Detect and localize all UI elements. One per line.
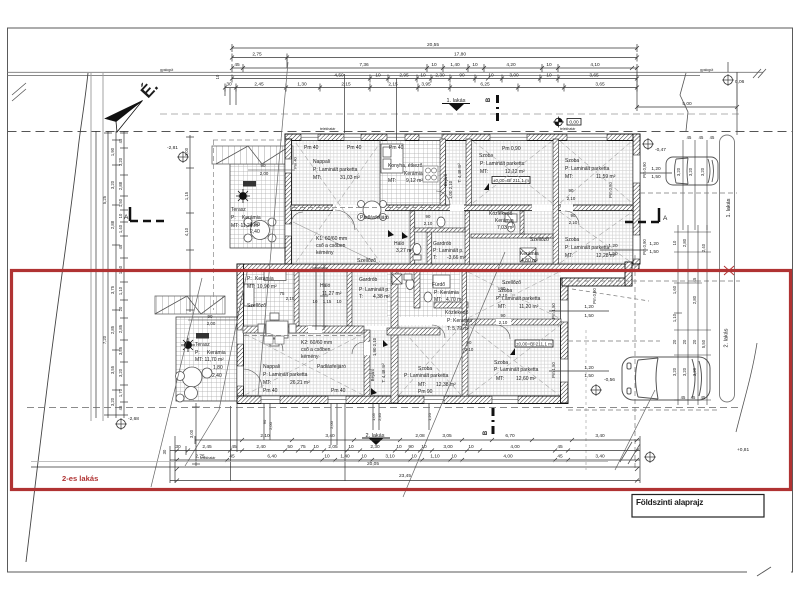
- svg-text:2-es lakás: 2-es lakás: [62, 474, 98, 483]
- svg-text:10: 10: [431, 62, 437, 68]
- svg-text:Szoba: Szoba: [565, 237, 579, 243]
- leader ticks below row 5: [225, 57, 345, 133]
- svg-text:10: 10: [313, 299, 318, 304]
- room fill nappali: [291, 139, 440, 265]
- svg-text:1,80: 1,80: [213, 365, 223, 371]
- svg-text:3,20: 3,20: [700, 167, 705, 176]
- svg-text:1,60: 1,60: [672, 285, 677, 294]
- interior vertical wall kitchen/bejaro: [440, 139, 446, 205]
- svg-text:10: 10: [348, 444, 354, 450]
- svg-text:4,00: 4,00: [510, 444, 520, 450]
- svg-text:3,27 m²: 3,27 m²: [396, 248, 413, 254]
- svg-text:45: 45: [231, 444, 237, 450]
- svg-text:T:: T:: [359, 294, 363, 300]
- svg-text:6,25: 6,25: [480, 82, 490, 88]
- svg-text:2,40: 2,40: [256, 444, 266, 450]
- svg-text:telekhatár: telekhatár: [320, 127, 336, 131]
- svg-text:2,40: 2,40: [701, 243, 706, 252]
- svg-text:Pm 0,90: Pm 0,90: [592, 288, 597, 304]
- svg-text:-2,81: -2,81: [167, 145, 178, 151]
- svg-text:7,20: 7,20: [102, 335, 107, 344]
- svg-text:10: 10: [375, 73, 381, 79]
- svg-text:2,95: 2,95: [399, 73, 409, 79]
- svg-text:2,40: 2,40: [377, 412, 382, 421]
- interior partitions bath block: [410, 211, 553, 264]
- svg-text:2,30: 2,30: [370, 444, 380, 450]
- svg-text:Pm 0,90: Pm 0,90: [608, 182, 613, 198]
- svg-text:45: 45: [692, 277, 697, 282]
- svg-text:P:: P:: [231, 215, 236, 221]
- bottom unit left wall: [237, 264, 244, 403]
- svg-text:10: 10: [472, 62, 478, 68]
- top dimension row 5: [223, 84, 639, 92]
- top dimension row 2: 2,75 / 17,80: [230, 54, 639, 62]
- svg-text:Szoba: Szoba: [418, 366, 432, 372]
- svg-text:Padlásfeljáró: Padlásfeljáró: [317, 364, 346, 370]
- svg-text:3,40: 3,40: [595, 433, 605, 439]
- bottom row 3: [170, 458, 640, 462]
- svg-text:Pm 40: Pm 40: [304, 145, 319, 151]
- diagonal survey line top right: [680, 73, 688, 131]
- svg-text:2,00: 2,00: [260, 171, 269, 176]
- black door flags bottom: [371, 340, 388, 395]
- svg-text:T: 4,48 m²: T: 4,48 m²: [381, 363, 386, 383]
- svg-text:20: 20: [682, 339, 687, 344]
- svg-text:10: 10: [468, 444, 474, 450]
- svg-text:3,20: 3,20: [110, 397, 115, 406]
- svg-text:45: 45: [691, 395, 696, 400]
- svg-text:23,45: 23,45: [399, 473, 411, 479]
- svg-text:telekhatár: telekhatár: [200, 456, 216, 460]
- svg-text:Fürdő: Fürdő: [432, 282, 445, 288]
- top dimension row 4: [230, 75, 639, 83]
- svg-text:3,65: 3,65: [595, 82, 605, 88]
- svg-text:1,10: 1,10: [672, 313, 677, 322]
- svg-text:1,20: 1,20: [427, 412, 432, 421]
- svg-text:P:: P:: [247, 276, 252, 282]
- top dimension row 3: [230, 64, 639, 72]
- svg-text:P:: P:: [195, 350, 200, 356]
- svg-text:Gardrób: Gardrób: [433, 241, 452, 247]
- svg-text:±0,00=Bf 211,1 m: ±0,00=Bf 211,1 m: [516, 342, 552, 347]
- svg-text:4,50: 4,50: [334, 73, 344, 79]
- svg-text:MT: 11,70 m²: MT: 11,70 m²: [195, 357, 224, 363]
- svg-text:1,50: 1,50: [649, 249, 659, 255]
- interior vertical wall bejaro/szoba1: [466, 139, 472, 205]
- svg-text:P: Kerámia: P: Kerámia: [434, 290, 459, 296]
- svg-text:Szellőző: Szellőző: [530, 237, 549, 243]
- svg-text:10: 10: [672, 240, 677, 245]
- svg-text:1,50: 1,50: [651, 174, 661, 180]
- svg-text:2,80: 2,80: [692, 295, 697, 304]
- svg-text:3,55: 3,55: [118, 346, 123, 355]
- square dining table bottom unit: [258, 313, 296, 346]
- svg-text:kémény: kémény: [316, 250, 334, 256]
- svg-text:MT:: MT:: [418, 382, 426, 388]
- svg-text:45: 45: [118, 244, 123, 249]
- svg-text:2,30: 2,30: [435, 73, 445, 79]
- terrace dim line: [248, 169, 295, 171]
- 1. lakas label with down arrow: [442, 98, 470, 111]
- benchmark top unit: [484, 177, 530, 191]
- svg-text:P: Laminált parketta: P: Laminált parketta: [494, 367, 539, 373]
- svg-text:3,20: 3,20: [682, 367, 687, 376]
- svg-text:1,20: 1,20: [649, 241, 659, 247]
- curved line right of strip: [736, 343, 757, 432]
- svg-text:Pm 40: Pm 40: [347, 145, 362, 151]
- svg-text:5,25: 5,25: [102, 195, 107, 204]
- svg-text:12,12 m²: 12,12 m²: [505, 169, 525, 175]
- svg-text:Szellőző: Szellőző: [357, 258, 376, 264]
- svg-text:Pm 40: Pm 40: [263, 388, 278, 394]
- svg-text:MT:: MT:: [313, 175, 321, 181]
- svg-text:1,40: 1,40: [118, 224, 123, 233]
- svg-text:Szellőző: Szellőző: [247, 303, 266, 309]
- svg-text:Háló: Háló: [320, 283, 331, 289]
- svg-text:4,20: 4,20: [506, 62, 516, 68]
- svg-text:1,50: 1,50: [118, 198, 123, 207]
- svg-text:Nappali: Nappali: [263, 364, 280, 370]
- svg-text:2,88: 2,88: [110, 220, 115, 229]
- svg-text:45: 45: [234, 62, 240, 68]
- svg-text:B: B: [486, 97, 492, 102]
- dim 5,00 right top: [635, 72, 739, 111]
- svg-text:0,00: 0,00: [569, 120, 579, 126]
- svg-text:10,90 m²: 10,90 m²: [257, 284, 277, 290]
- svg-text:6,70: 6,70: [505, 433, 515, 439]
- vertical line right of plan: [736, 72, 738, 135]
- wc fixtures bottom unit: [392, 274, 450, 302]
- dining table round nappali: [358, 201, 387, 221]
- svg-text:45: 45: [699, 135, 704, 140]
- interior vertical wall szoba1/szoba2: [553, 139, 559, 264]
- svg-text:3,65: 3,65: [589, 73, 599, 79]
- svg-text:12,38 m²: 12,38 m²: [436, 382, 456, 388]
- curved site boundary left: [26, 73, 88, 562]
- walkway strip right (obround): [720, 135, 735, 402]
- svg-text:1,20: 1,20: [584, 304, 594, 310]
- red X mark where box crosses walkway: [724, 266, 734, 275]
- svg-text:10: 10: [421, 444, 427, 450]
- svg-text:10: 10: [546, 62, 552, 68]
- terasz 1 tile: [230, 164, 291, 248]
- elevation marker -0,47: [642, 138, 666, 153]
- svg-text:1,50: 1,50: [584, 313, 594, 319]
- svg-text:2,00: 2,00: [329, 420, 334, 429]
- svg-text:3,20: 3,20: [672, 367, 677, 376]
- section marker B bottom: [483, 408, 493, 437]
- svg-text:cső a csőben: cső a csőben: [301, 347, 331, 353]
- svg-text:26,21 m²: 26,21 m²: [290, 380, 310, 386]
- svg-text:+0,81: +0,81: [737, 447, 749, 453]
- svg-text:45: 45: [701, 395, 706, 400]
- terrace 2 table and chairs: [176, 367, 213, 402]
- svg-text:30: 30: [175, 444, 181, 450]
- svg-text:P: Laminált parketta: P: Laminált parketta: [313, 167, 358, 173]
- dashed projection lines bottom unit: [244, 335, 364, 337]
- dim chain left of building top: [186, 135, 194, 312]
- window dims right of top unit: [608, 166, 661, 257]
- svg-text:MT:: MT:: [498, 304, 506, 310]
- room fills bottom unit: [243, 271, 294, 326]
- svg-text:1,10: 1,10: [430, 454, 440, 460]
- svg-text:2,08: 2,08: [415, 433, 425, 439]
- svg-text:Pm 1,50: Pm 1,50: [551, 362, 556, 378]
- svg-text:45: 45: [710, 135, 715, 140]
- svg-text:Szoba: Szoba: [479, 153, 493, 159]
- svg-text:10: 10: [451, 454, 457, 460]
- svg-text:2,10: 2,10: [286, 296, 295, 301]
- svg-text:Kerámia: Kerámia: [404, 171, 423, 177]
- svg-text:P: Laminált parketta: P: Laminált parketta: [480, 161, 525, 167]
- svg-text:90: 90: [569, 188, 574, 193]
- svg-text:1,20: 1,20: [584, 365, 594, 371]
- dashed utility line: [160, 113, 742, 115]
- svg-text:Szoba: Szoba: [494, 360, 508, 366]
- terrace sun symbol: [236, 189, 250, 203]
- svg-text:3,40: 3,40: [595, 454, 605, 460]
- svg-text:1,90 2,10: 1,90 2,10: [372, 337, 377, 356]
- 2. lakas label with down arrow bottom: [362, 433, 390, 445]
- svg-text:4,38 m²: 4,38 m²: [373, 294, 390, 300]
- right 3,40 dim diagonal break marks: [620, 442, 640, 464]
- svg-text:gyalogút: gyalogút: [160, 68, 173, 72]
- svg-text:7,03 m²: 7,03 m²: [497, 225, 514, 231]
- svg-text:P: Laminált p.: P: Laminált p.: [359, 287, 390, 293]
- svg-text:K2: 60/60 mm: K2: 60/60 mm: [301, 340, 332, 346]
- svg-text:Pm 0,90: Pm 0,90: [502, 146, 521, 152]
- svg-text:P: Kerámia: P: Kerámia: [447, 318, 472, 324]
- black door flags: [388, 230, 408, 239]
- svg-text:2,88: 2,88: [118, 181, 123, 190]
- svg-text:gyalogút: gyalogút: [700, 68, 713, 72]
- svg-text:90: 90: [426, 214, 431, 219]
- vertical dim chains below building: [331, 403, 429, 445]
- site property line (double) top: [8, 72, 764, 75]
- svg-text:10: 10: [361, 454, 367, 460]
- svg-text:1. lakás: 1. lakás: [726, 198, 732, 217]
- room fill szoba1: [471, 139, 559, 205]
- svg-text:telekhatár: telekhatár: [560, 127, 576, 131]
- left end vertical ticks of bottom rows: [170, 403, 640, 483]
- svg-text:1,15: 1,15: [184, 191, 189, 200]
- svg-text:3,20: 3,20: [692, 367, 697, 376]
- elevation marker -2,81 left: [167, 145, 189, 163]
- car 1 dim lines: [683, 140, 707, 230]
- window dims right of bottom unit: [584, 304, 594, 379]
- svg-text:2,10: 2,10: [499, 320, 508, 325]
- middle vertical dim chains between units: [312, 264, 328, 330]
- kitchen2 counters: [244, 272, 286, 307]
- bottom unit bottom wall: [237, 396, 568, 404]
- svg-text:3,10: 3,10: [385, 454, 395, 460]
- svg-text:4,10: 4,10: [184, 227, 189, 236]
- svg-text:10: 10: [337, 299, 342, 304]
- svg-text:4,10: 4,10: [590, 62, 600, 68]
- svg-text:P: Laminált parketta: P: Laminált parketta: [565, 166, 610, 172]
- svg-text:2,85: 2,85: [118, 324, 123, 333]
- svg-text:90: 90: [262, 419, 267, 424]
- section marker A left: [124, 207, 164, 221]
- svg-text:Kerámia: Kerámia: [520, 251, 539, 257]
- svg-text:2,40: 2,40: [212, 373, 222, 379]
- wc fixtures top unit: [413, 214, 536, 262]
- svg-text:Gardrób: Gardrób: [359, 277, 378, 283]
- svg-text:1,20: 1,20: [608, 243, 618, 249]
- svg-text:cső a csőben: cső a csőben: [316, 243, 346, 249]
- svg-text:7,36: 7,36: [359, 62, 369, 68]
- party wall between units: [237, 264, 639, 272]
- svg-text:Pm 0,90: Pm 0,90: [642, 162, 647, 178]
- title box: [632, 495, 764, 518]
- svg-text:Pm 90: Pm 90: [418, 389, 433, 395]
- interior walls bottom unit: [243, 271, 561, 403]
- svg-text:1,70: 1,70: [118, 388, 123, 397]
- car 2 bottom: [622, 357, 710, 400]
- svg-text:kémény: kémény: [301, 354, 319, 360]
- svg-text:2,00: 2,00: [207, 321, 216, 326]
- svg-text:2,10: 2,10: [499, 293, 508, 298]
- svg-text:A: A: [663, 215, 668, 222]
- svg-text:75: 75: [300, 444, 306, 450]
- top dimension row 1: 20,55: [230, 44, 639, 52]
- svg-text:3,20: 3,20: [688, 167, 693, 176]
- svg-text:5,00: 5,00: [682, 101, 692, 107]
- svg-text:30: 30: [226, 82, 232, 88]
- svg-text:20: 20: [692, 339, 697, 344]
- red highlight box 2-es lakas: [12, 271, 791, 490]
- door gaps in bottom unit walls: [265, 317, 511, 355]
- elevation marker -0,56: [590, 377, 615, 396]
- svg-text:4,00: 4,00: [503, 454, 513, 460]
- svg-text:45: 45: [118, 138, 123, 143]
- svg-text:90: 90: [501, 286, 506, 291]
- svg-text:90: 90: [459, 73, 465, 79]
- svg-text:4,70 m²: 4,70 m²: [446, 297, 463, 303]
- terasz 2 tile: [176, 317, 237, 401]
- svg-text:MT:: MT:: [496, 376, 504, 382]
- svg-text:30: 30: [162, 449, 167, 454]
- elevation marker 0,06 top right: [722, 62, 745, 86]
- svg-text:3,20: 3,20: [110, 180, 115, 189]
- border gap bottom right: [747, 570, 791, 576]
- svg-text:1,50: 1,50: [584, 373, 594, 379]
- svg-text:3,40: 3,40: [325, 433, 335, 439]
- bottom unit right wall: [561, 278, 569, 403]
- svg-text:10: 10: [324, 454, 330, 460]
- svg-text:Konyha, étkező: Konyha, étkező: [388, 163, 423, 169]
- svg-text:Pm 0,90: Pm 0,90: [642, 239, 647, 255]
- SE corner stub: [625, 262, 632, 286]
- car 1 top: [666, 157, 718, 185]
- dashed carport lines: [640, 192, 737, 194]
- svg-text:3,75: 3,75: [110, 285, 115, 294]
- stairs 2: [155, 296, 225, 314]
- svg-text:A: A: [124, 214, 129, 221]
- svg-text:Padlásfeljáró: Padlásfeljáró: [360, 215, 389, 221]
- bottom row 2: [170, 449, 640, 453]
- svg-text:20: 20: [672, 339, 677, 344]
- bottom row 4: [31, 467, 640, 471]
- svg-text:2,10: 2,10: [465, 347, 474, 352]
- stairs 1 top-left: [212, 146, 293, 164]
- FSZ box terrace2: [196, 333, 209, 339]
- bottom row 5: [170, 479, 640, 483]
- svg-text:3,05: 3,05: [442, 433, 452, 439]
- svg-text:90: 90: [501, 313, 506, 318]
- texts bottom unit: [195, 276, 541, 395]
- terrace table with chairs: [244, 218, 276, 242]
- door arcs top unit: [291, 191, 579, 230]
- svg-text:P: Laminált p.: P: Laminált p.: [433, 248, 464, 254]
- small furniture rects nappali2: [264, 336, 273, 344]
- elevation marker bottom right: [644, 451, 656, 463]
- svg-text:9,12 m²: 9,12 m²: [406, 178, 423, 184]
- svg-text:2,45: 2,45: [254, 82, 264, 88]
- svg-text:Kerámia: Kerámia: [255, 276, 274, 282]
- svg-text:5,50: 5,50: [701, 339, 706, 348]
- svg-text:45: 45: [681, 395, 686, 400]
- svg-text:T: 4,48 m²: T: 4,48 m²: [457, 163, 462, 183]
- svg-text:4,80 m²: 4,80 m²: [521, 258, 538, 264]
- svg-text:Terasz: Terasz: [231, 207, 246, 213]
- door arcs bottom unit: [243, 325, 510, 388]
- room fill szoba2: [559, 139, 633, 205]
- svg-text:20: 20: [118, 306, 123, 311]
- svg-text:Terasz: Terasz: [195, 342, 210, 348]
- north arrow: [105, 77, 162, 132]
- svg-text:1,20: 1,20: [651, 166, 661, 172]
- svg-text:10: 10: [420, 73, 426, 79]
- svg-text:45: 45: [687, 135, 692, 140]
- svg-text:Pm 40: Pm 40: [331, 388, 346, 394]
- room fill bejaro: [446, 139, 471, 205]
- dashed line below building: [27, 407, 742, 409]
- svg-text:3,00: 3,00: [184, 147, 189, 156]
- exterior top wall with windows: [285, 78, 640, 141]
- svg-text:0,06: 0,06: [735, 79, 745, 85]
- svg-text:Nappali: Nappali: [313, 159, 330, 165]
- svg-text:B: B: [483, 430, 489, 435]
- svg-text:T:: T:: [433, 255, 437, 261]
- svg-text:P: Laminált parketta: P: Laminált parketta: [263, 372, 308, 378]
- svg-text:2,00: 2,00: [268, 421, 273, 430]
- svg-text:2,80: 2,80: [682, 238, 687, 247]
- svg-text:-0,56: -0,56: [604, 377, 615, 383]
- svg-text:1,30: 1,30: [297, 82, 307, 88]
- svg-text:3,00: 3,00: [509, 73, 519, 79]
- svg-text:2,15: 2,15: [341, 82, 351, 88]
- svg-text:2,10: 2,10: [424, 221, 433, 226]
- dashed plot boundary line: [8, 131, 793, 133]
- room fill kitchen konyha (tile): [380, 139, 446, 205]
- svg-text:-2,68: -2,68: [128, 416, 139, 422]
- svg-text:3,00: 3,00: [189, 429, 194, 438]
- svg-text:Közlekedő: Közlekedő: [445, 310, 469, 316]
- svg-text:MT:: MT:: [388, 178, 396, 184]
- svg-text:2,10: 2,10: [567, 196, 576, 201]
- svg-text:3,00: 3,00: [443, 444, 453, 450]
- texts top unit: [231, 145, 616, 264]
- svg-text:6,40: 6,40: [267, 454, 277, 460]
- svg-text:2,10: 2,10: [260, 433, 270, 439]
- room fill szoba3: [559, 211, 633, 264]
- svg-text:45: 45: [557, 454, 563, 460]
- site boundary break mark left: [12, 83, 26, 101]
- exterior left wall: [285, 139, 292, 265]
- svg-text:MT:: MT:: [247, 284, 255, 290]
- svg-text:3,55: 3,55: [110, 365, 115, 374]
